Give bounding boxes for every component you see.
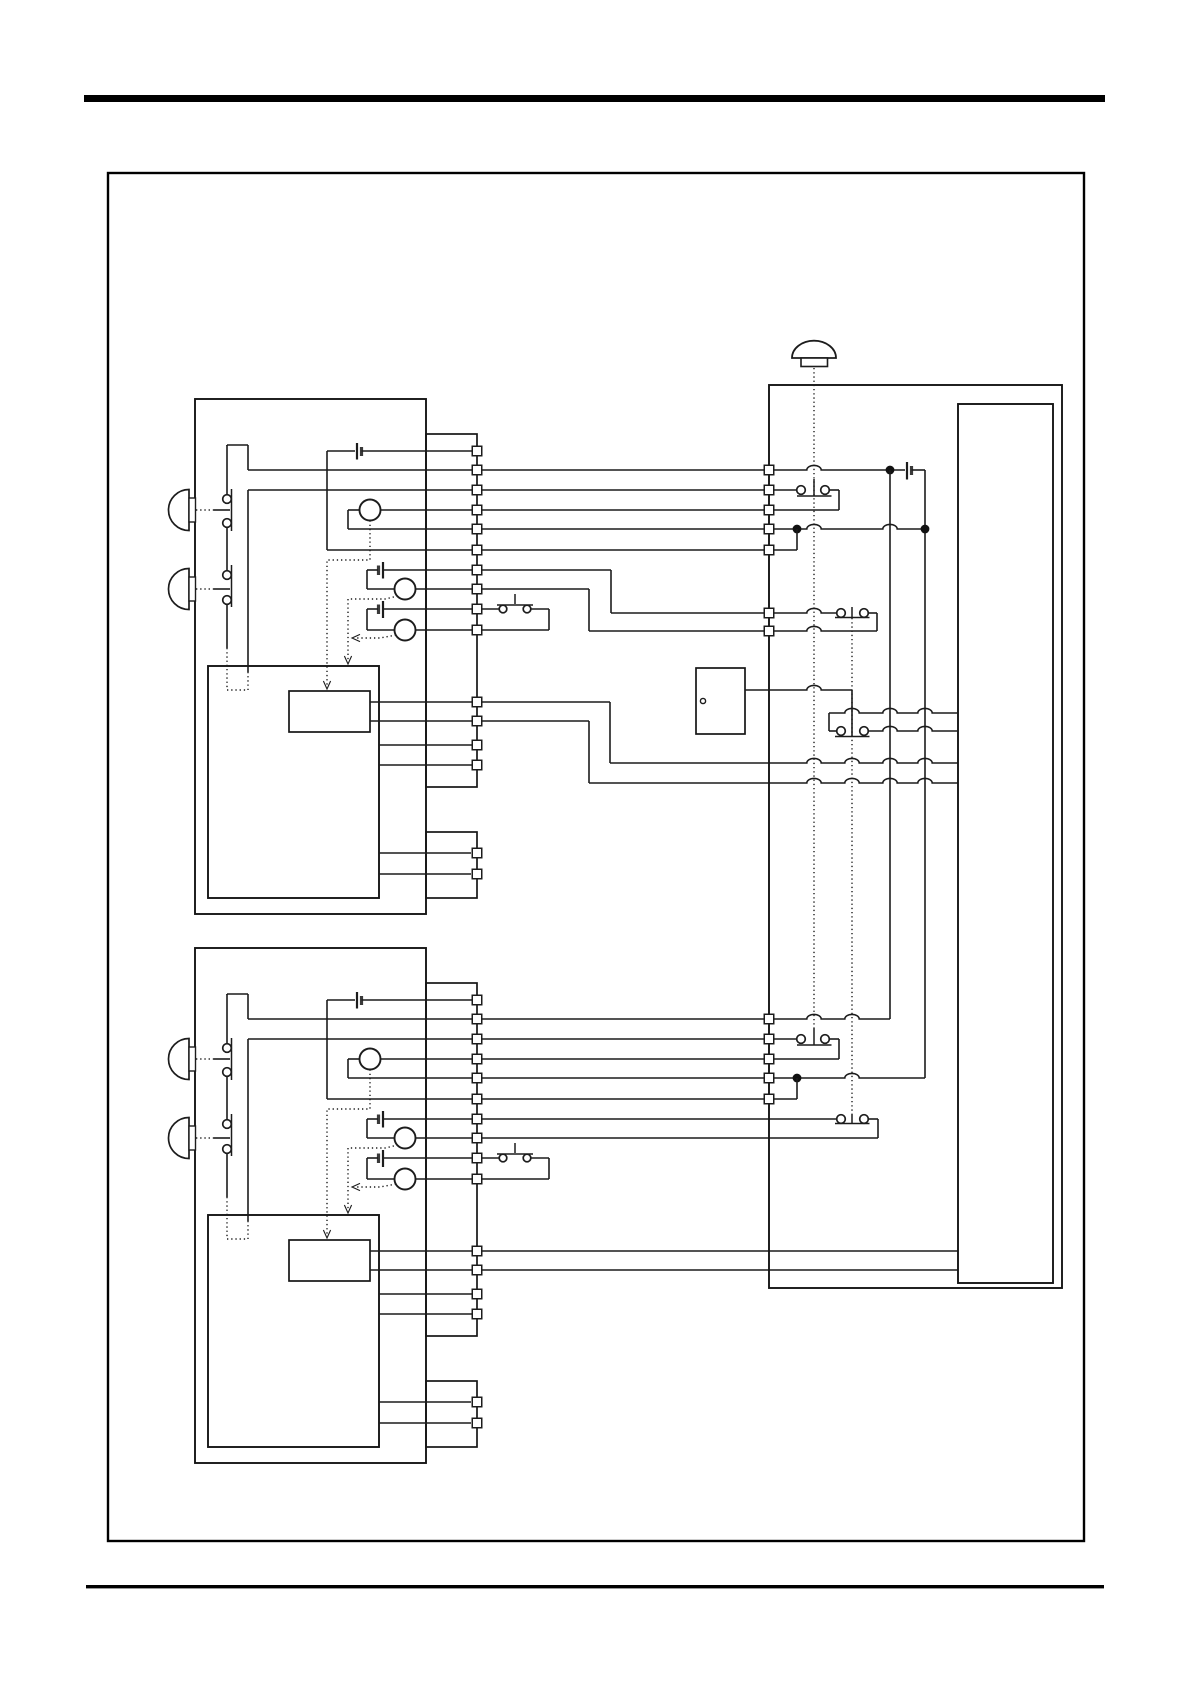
dotted actuation from motor M13 [352,634,396,641]
wire switch feed T unit 1 [227,445,248,470]
wire bus drop A [889,470,891,1019]
wire row 529 [774,524,925,529]
wire row 1078 unit2 to controller [482,1077,764,1079]
wire control box outputs B unit 2 [379,1402,471,1423]
connector CN2A pins [472,995,482,1319]
wire row 1019 [774,1014,890,1019]
wire row 731 [869,726,959,731]
dotted actuation from motor M21 [323,1070,370,1239]
wire K4 loop [869,1119,879,1138]
motor M21 [360,1049,381,1070]
wire CN rows 2-3 unit 2 [248,1019,472,1039]
lamp PL2 unit 1 [169,569,196,610]
wire row 550 unit1 to controller [482,549,764,551]
dotted actuation from motor M12 [344,596,398,664]
washer 1 control unit box [208,666,379,898]
selector switch S1b contacts [223,565,232,648]
motor M22 [395,1128,416,1149]
wire pushbutton loop unit 2 [482,1158,549,1179]
motor M12 [395,579,416,600]
wire row 1078 [774,1073,925,1078]
connector CN1A pins [472,446,482,770]
battery B22 [367,1111,472,1128]
wire pushbutton loop unit 1 [482,609,549,630]
lamp PL1 unit 2 [169,1039,196,1080]
wire row 529 unit1 to controller [482,528,764,530]
lamp PL1 unit 1 [169,490,196,531]
battery B13 [367,601,472,618]
wire row 1059 unit2 to controller [482,1058,764,1060]
relay contact K2 [774,607,870,618]
pushbutton switch PB2 [497,1143,533,1162]
lamp PL2 unit 2 [169,1117,196,1158]
wire row 1119 unit2 to relay K4 [482,1118,837,1120]
wire motor M22 leads [367,1119,472,1138]
battery B11 [327,443,472,460]
washer 2 timer module box [289,1240,370,1281]
relay contact K2b [835,727,870,737]
wire timer2 out A to controller [482,1250,958,1252]
wire row 550 riser [774,529,797,550]
page top rule [84,95,1105,102]
wire timer outputs unit 2 [370,1251,472,1270]
washer 2 connector CN2B body [426,1381,477,1447]
junction node row1078 [793,1074,802,1083]
wire timer outputs unit 1 [370,702,472,721]
wire control box outputs unit 2 [379,1294,472,1314]
wire lamp2 link unit 2 [196,1137,230,1139]
wire interlock to K2b stem [745,685,852,736]
relay contact K1 [774,479,832,496]
dotted bell actuation line [813,368,815,1028]
wire lamp1 link unit 1 [196,509,230,511]
selector switch S1a contacts [223,445,232,571]
washer unit 2 enclosure [195,948,426,1463]
motor M23 [395,1169,416,1190]
relay contact K3 [774,1028,832,1045]
wire row 589 jog to relay K2 [482,589,764,631]
wire row 1138 unit2 to relay K4 [482,1137,878,1139]
dotted actuation from motor M22 [344,1145,398,1213]
controller pins upper group [764,465,774,636]
wire control box outputs B unit 1 [379,853,471,874]
battery B21 [327,992,472,1009]
wire row 1019 unit2 to controller [482,1018,764,1020]
wire row 1099 unit2 to controller [482,1098,764,1100]
wire motor M23 leads [367,1158,472,1179]
wire K3 to row 1059 [774,1039,839,1059]
page border frame [108,173,1084,1541]
wire K2 to row 631 [774,613,877,631]
relay contact K4 [835,1114,870,1124]
junction node row529 left [793,525,802,534]
motor M13 [395,620,416,641]
wire row 1099 riser [774,1078,797,1099]
junction node row529 right [921,525,930,534]
wire switch common drop unit 2 [247,1039,249,1221]
page bottom rule [86,1585,1104,1588]
wire K1 to row 510 [774,490,839,510]
wire lamp2 link unit 1 [196,588,230,590]
dotted link into control box unit 1 [227,648,248,690]
wire motor M13 leads [367,609,472,630]
wire row 713 [829,708,958,731]
wire motor M12 leads [367,570,472,589]
wire row 490 unit1 to controller [482,489,764,491]
dotted link into control box unit 2 [227,1197,248,1239]
wire battery loop unit 2 [327,1000,472,1099]
dotted relay linkage K2-K4 [851,618,853,1114]
wire motor M21 leads [348,1059,472,1078]
wire battery loop unit 1 [327,451,472,550]
washer 1 connector CN1A body [426,434,477,787]
wire control box outputs unit 1 [379,745,472,765]
wire switch common drop unit 1 [247,490,249,672]
wire CN rows 2-3 unit 1 [248,470,472,490]
interlock module box [696,668,745,734]
wire row 470 battery feed [774,465,905,470]
battery B4 [907,462,925,480]
battery B12 [367,562,472,579]
wire row 510 unit1 to controller [482,509,764,511]
controller main board [958,404,1053,1283]
wire row 470 unit1 to controller [482,469,764,471]
wire timer out A to controller [482,702,958,763]
washer 2 control unit box [208,1215,379,1447]
junction node row470 [886,466,895,475]
motor M11 [360,500,381,521]
wire timer2 out B to controller [482,1269,958,1271]
dotted actuation from motor M11 [323,521,370,690]
wire switch feed T unit 2 [227,994,248,1019]
washer 1 timer module box [289,691,370,732]
washer 1 connector CN1B body [426,832,477,898]
selector switch S2b contacts [223,1114,232,1197]
wire row 570 jog to relay K2 [482,570,764,613]
controller enclosure [769,385,1062,1288]
washer 2 connector CN2A body [426,983,477,1336]
connector CN1B pins [472,848,482,879]
dotted actuation from motor M23 [352,1183,396,1190]
wire bus drop B [924,470,926,1078]
wire timer out B to controller [482,721,958,783]
controller pins lower group [764,1014,774,1104]
selector switch S2a contacts [223,994,232,1120]
wire row 1039 unit2 to controller [482,1038,764,1040]
battery B23 [367,1150,472,1167]
washer unit 1 enclosure [195,399,426,914]
pushbutton switch PB1 [497,594,533,613]
wire lamp1 link unit 2 [196,1058,230,1060]
connector CN2B pins [472,1397,482,1428]
alarm bell [792,341,836,367]
wire motor M11 leads [348,510,472,529]
